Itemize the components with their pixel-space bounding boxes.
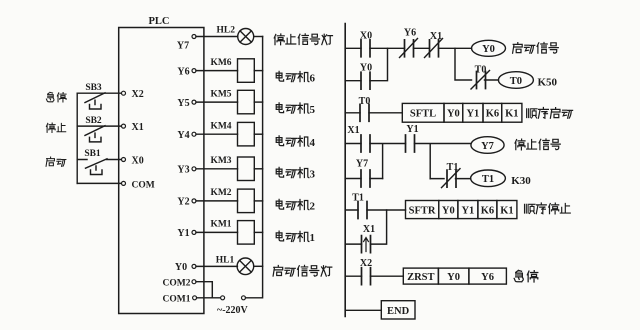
- svg-text:X1: X1: [132, 122, 144, 133]
- function block SFTL: [402, 103, 522, 122]
- svg-text:5: 5: [310, 104, 316, 116]
- wire X1 branch: [345, 210, 386, 244]
- function block ZRST: [403, 268, 506, 284]
- label 急停: [514, 270, 538, 282]
- label 急停: [46, 92, 66, 102]
- label 停止信号: [515, 139, 560, 150]
- wire Y3 to KM3: [196, 168, 238, 170]
- svg-text:Y1: Y1: [461, 205, 474, 216]
- contact X0 (NO): [361, 40, 370, 57]
- function block END: [381, 301, 415, 319]
- label 启动信号: [513, 42, 559, 53]
- svg-text:KM4: KM4: [210, 121, 231, 131]
- svg-text:Y1: Y1: [406, 124, 418, 135]
- svg-text:Y0: Y0: [442, 205, 455, 216]
- pushbutton SB1 (NO): [86, 159, 108, 175]
- svg-text:K6: K6: [481, 205, 494, 216]
- svg-text:Y0: Y0: [447, 109, 460, 120]
- svg-text:K1: K1: [505, 109, 518, 120]
- svg-text:Y0: Y0: [360, 63, 372, 74]
- node COM: [122, 181, 126, 185]
- label 电动机3: [276, 167, 309, 177]
- contact Y1 (NO): [406, 135, 415, 152]
- svg-text:PLC: PLC: [149, 16, 170, 27]
- node Y2: [192, 199, 196, 203]
- node supply terminal b: [242, 296, 246, 300]
- svg-text:X1: X1: [363, 224, 375, 235]
- input bus wire (left vertical): [76, 93, 78, 183]
- wire KM6 to bus: [254, 70, 262, 72]
- svg-text:Y0: Y0: [482, 44, 495, 55]
- wire SB3 row: [77, 92, 123, 94]
- svg-text:KM6: KM6: [210, 58, 231, 68]
- node X2: [122, 91, 126, 95]
- svg-text:END: END: [387, 306, 410, 317]
- svg-text:T0: T0: [475, 65, 487, 76]
- wire Y4 to KM4: [196, 133, 238, 135]
- wire T1 branch: [430, 178, 470, 180]
- label 停止信号灯: [274, 34, 332, 45]
- wire Y6 to KM6: [196, 70, 238, 72]
- svg-text:ZRST: ZRST: [407, 272, 434, 283]
- svg-text:Y7: Y7: [356, 159, 368, 170]
- svg-text:HL1: HL1: [216, 255, 235, 265]
- contactor coil KM1: [238, 221, 255, 245]
- wire SB1 row: [77, 159, 123, 161]
- label 电动机5: [276, 103, 309, 113]
- contact X1 (pulse): [362, 236, 371, 253]
- contactor coil KM5: [238, 90, 255, 114]
- svg-text:Y7: Y7: [481, 141, 494, 152]
- svg-text:Y1: Y1: [466, 109, 479, 120]
- wire right bus: [246, 37, 263, 298]
- coil T1: [471, 170, 506, 187]
- svg-text:SB3: SB3: [85, 83, 102, 93]
- svg-text:X2: X2: [132, 89, 144, 100]
- wire Y5 to KM5: [196, 101, 238, 103]
- coil Y0: [472, 40, 506, 56]
- svg-text:X1: X1: [347, 125, 359, 136]
- svg-text:SB1: SB1: [84, 149, 101, 159]
- wire KM1 to bus: [254, 231, 262, 233]
- label 电动机1: [276, 231, 309, 241]
- wire rung5: [345, 275, 403, 277]
- node supply terminal a: [221, 296, 225, 300]
- svg-text:Y0: Y0: [447, 272, 460, 283]
- contact T1 (NO): [358, 202, 367, 219]
- node Y7: [192, 35, 196, 39]
- wire END rung: [345, 309, 381, 311]
- svg-text:6: 6: [310, 72, 316, 84]
- wire rung1: [345, 47, 471, 49]
- wire HL1 to bus: [254, 265, 263, 267]
- contactor coil KM4: [238, 122, 255, 145]
- svg-text:T0: T0: [359, 96, 371, 107]
- contact X1 (NC): [430, 40, 439, 57]
- svg-text:K6: K6: [486, 109, 499, 120]
- node Y6: [192, 69, 196, 73]
- svg-text:T1: T1: [482, 174, 494, 185]
- svg-text:COM: COM: [132, 180, 155, 190]
- wire rung2: [345, 112, 402, 114]
- svg-text:T0: T0: [510, 76, 522, 87]
- node Y0: [192, 264, 196, 268]
- label 电动机6: [276, 71, 309, 81]
- function block SFTR: [406, 201, 517, 219]
- node COM2: [192, 280, 196, 284]
- label 启动信号灯: [273, 265, 332, 276]
- lamp HL2: [238, 29, 254, 45]
- node COM1: [193, 296, 197, 300]
- wire SB2 row: [77, 125, 123, 127]
- wire rung4: [345, 209, 405, 211]
- svg-text:Y6: Y6: [177, 66, 189, 77]
- wire COM1 to supply: [197, 297, 223, 299]
- wire HL2 to bus: [254, 36, 263, 38]
- wire KM5 to bus: [254, 101, 262, 103]
- svg-text:Y0: Y0: [175, 262, 187, 273]
- wire Y7 to HL2: [196, 36, 238, 38]
- wire KM2 to bus: [254, 200, 262, 202]
- node X1: [122, 124, 126, 128]
- node X0: [122, 158, 126, 162]
- wire Y2 to KM2: [196, 200, 238, 202]
- svg-text:KM1: KM1: [210, 220, 231, 230]
- contact T0 (NC): [477, 72, 486, 89]
- svg-text:KM2: KM2: [210, 188, 231, 198]
- coil T0: [498, 72, 533, 89]
- lamp HL1: [237, 258, 254, 275]
- svg-text:4: 4: [310, 137, 316, 149]
- pushbutton SB2 (NC): [85, 126, 105, 142]
- contactor coil KM6: [238, 59, 255, 83]
- svg-text:HL2: HL2: [217, 26, 236, 36]
- wire Y0 to HL1: [196, 265, 237, 267]
- svg-text:T1: T1: [352, 193, 364, 204]
- contactor coil KM2: [238, 189, 255, 213]
- svg-text:KM3: KM3: [210, 156, 231, 166]
- wire COM row: [77, 182, 123, 184]
- svg-text:COM2: COM2: [163, 279, 191, 289]
- svg-text:Y6: Y6: [481, 272, 494, 283]
- PLC box U1: [119, 28, 204, 314]
- contact Y6 (NC): [405, 40, 414, 57]
- svg-text:Y7: Y7: [177, 41, 189, 52]
- node Y1: [192, 230, 196, 234]
- wire Y0 branch: [345, 48, 387, 80]
- svg-text:X1: X1: [430, 31, 442, 42]
- contact T1 (NC): [447, 170, 456, 187]
- svg-text:SB2: SB2: [85, 116, 102, 126]
- svg-text:~-220V: ~-220V: [217, 305, 249, 316]
- wire rung3: [345, 144, 471, 179]
- svg-text:Y3: Y3: [177, 165, 189, 176]
- wire COM2: [196, 282, 212, 298]
- svg-text:SFTR: SFTR: [409, 205, 436, 216]
- wire left power rail: [344, 24, 346, 317]
- svg-text:K1: K1: [500, 205, 513, 216]
- svg-text:Y1: Y1: [177, 228, 189, 239]
- label 顺序停止: [525, 203, 571, 214]
- pushbutton SB3 (NC): [85, 93, 105, 109]
- contact X2 (NO): [362, 268, 371, 285]
- node Y4: [192, 132, 196, 136]
- svg-text:K50: K50: [538, 76, 558, 88]
- svg-text:Y6: Y6: [404, 28, 416, 39]
- svg-text:Y4: Y4: [177, 130, 189, 141]
- node Y3: [192, 167, 196, 171]
- svg-text:COM1: COM1: [163, 295, 191, 305]
- wire KM3 to bus: [254, 168, 262, 170]
- label 电动机2: [276, 199, 309, 209]
- contactor coil KM3: [238, 157, 255, 181]
- svg-text:T1: T1: [447, 162, 459, 173]
- svg-text:X2: X2: [360, 258, 372, 269]
- svg-text:KM5: KM5: [210, 89, 231, 99]
- wire KM4 to bus: [254, 133, 262, 135]
- contact T0 (NO): [360, 104, 369, 121]
- contact Y0 (NO): [361, 72, 370, 89]
- svg-text:Y2: Y2: [177, 197, 189, 208]
- node Y5: [192, 100, 196, 104]
- wire Y7 branch: [345, 178, 382, 180]
- contact X1 (NO): [361, 135, 370, 152]
- label 启动: [46, 157, 66, 166]
- svg-text:2: 2: [310, 200, 316, 212]
- label 电动机4: [276, 136, 309, 146]
- svg-text:X0: X0: [360, 30, 372, 41]
- svg-text:K30: K30: [511, 175, 531, 187]
- coil Y7: [471, 137, 504, 154]
- contact Y7 (NO): [361, 170, 370, 187]
- svg-text:Y5: Y5: [177, 98, 189, 109]
- svg-text:3: 3: [310, 168, 316, 180]
- svg-text:X0: X0: [132, 156, 144, 167]
- svg-text:1: 1: [310, 232, 316, 244]
- wire Y1 to KM1: [196, 231, 238, 233]
- label 顺序启动: [527, 108, 573, 119]
- wire T0 branch: [455, 48, 498, 80]
- label 停止: [46, 123, 65, 132]
- svg-text:SFTL: SFTL: [410, 109, 436, 120]
